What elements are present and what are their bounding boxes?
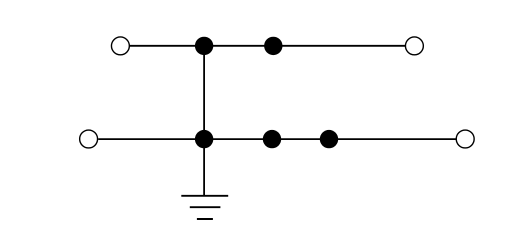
ground [181, 196, 228, 219]
node: bottom bus contact point 2 [320, 130, 338, 148]
wire: ground lead from bottom bus junction [203, 139, 205, 196]
node: bottom bus contact point 1 [263, 130, 281, 148]
node: top bus junction with vertical tie [195, 37, 213, 55]
terminal: top-right open contact [405, 37, 423, 55]
wire: top horizontal bus [130, 45, 406, 47]
wire: bottom horizontal bus [98, 138, 456, 140]
node: bottom bus junction with tie and ground [195, 130, 213, 148]
terminal: bottom-left open contact [80, 130, 98, 148]
wire: vertical tie from top bus to bottom bus [203, 46, 205, 139]
terminal: bottom-right open contact [456, 130, 474, 148]
terminal: top-left open contact [111, 37, 129, 55]
node: top bus contact point [264, 37, 282, 55]
